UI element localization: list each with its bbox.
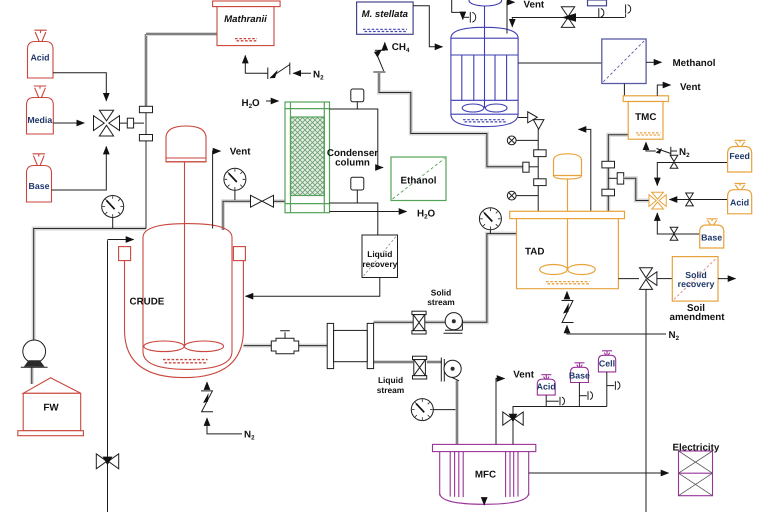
impeller CRUDE <box>144 341 224 352</box>
bottle Acid (MFC) <box>537 375 556 395</box>
wire: solid recovery out <box>718 278 736 280</box>
pipe: FW pump to feed header <box>34 229 146 341</box>
instrument check D at fermenter top <box>463 12 476 23</box>
valve: hourglass on Acid line <box>686 193 694 206</box>
bottle Acid (left) <box>28 30 54 78</box>
tank Mathranii seed vessel <box>213 1 281 46</box>
tank TAD <box>510 211 625 288</box>
wire: fermenter vent <box>507 2 515 33</box>
impeller fermenter <box>462 104 507 112</box>
pipe: TMC bottom to TAD downcomer <box>608 135 629 212</box>
fermenter vessel (blue) <box>451 27 518 126</box>
flange on riser upper <box>139 106 152 112</box>
svg-text:Media: Media <box>27 115 52 125</box>
bottle Feed <box>728 140 752 172</box>
svg-text:Ethanol: Ethanol <box>401 175 437 186</box>
svg-text:Cell: Cell <box>599 358 615 368</box>
wire: Acid to 4-way valve <box>53 73 106 101</box>
wire: Cell stem to header <box>606 372 608 407</box>
instrument check D on Cell stem <box>607 381 620 390</box>
wire: feed arrow into CRUDE dome <box>108 239 134 241</box>
instrument square upper <box>351 89 364 109</box>
gauge PI-2 on condenser feed <box>224 168 246 200</box>
instrument square lower <box>351 177 364 203</box>
wire: Acid bottle to orange valve <box>670 199 728 201</box>
funnel cone on TAD downcomer <box>533 120 544 130</box>
tank MFC <box>433 444 536 504</box>
shaft fermenter agitator <box>484 6 486 109</box>
wire: Media to 4-way valve <box>53 122 84 124</box>
valve: hourglass on Feed line <box>670 155 678 168</box>
gauge PI-4 on liquid stream drop <box>411 399 455 421</box>
shaft TAD agitator <box>567 179 569 268</box>
wire: condenser top to instrument tee and Ethanol <box>330 109 384 168</box>
wire: N2 supply to regulator <box>293 72 311 74</box>
valve: gate valve on CRUDE outlet <box>271 331 298 354</box>
svg-text:Methanol: Methanol <box>673 58 716 69</box>
pipe: top run into Mathranii <box>146 32 217 36</box>
wire: fermenter overheads to membrane <box>518 62 602 64</box>
svg-text:stream: stream <box>377 385 404 395</box>
wire: fermenter bottoms to TAD feed cone <box>518 117 527 119</box>
valve: orange 4-way at TAD feed station <box>649 192 666 209</box>
bottle Cell (MFC) <box>598 351 615 372</box>
sparger CRUDE <box>163 360 208 363</box>
wire: liquid recovery recycle into CRUDE <box>246 278 380 297</box>
pipe: filter to solid-stream valve <box>374 320 446 324</box>
regulator zigzag N2 into TMC bottom <box>646 142 677 155</box>
reducer on TAD feed line <box>523 162 529 172</box>
regulator zigzag N2 into TAD bottom <box>562 292 667 335</box>
wire: MFC power line to Electricity <box>529 472 669 474</box>
sparger fermenter <box>463 120 506 122</box>
svg-text:Base: Base <box>28 181 49 191</box>
regulator zigzag on Mathranii N2 line <box>268 63 290 80</box>
svg-text:Mathranii: Mathranii <box>224 14 267 25</box>
valve: hourglass on Base line <box>670 227 678 240</box>
wire: CRUDE vent <box>213 151 221 228</box>
valve: bowtie on condenser feed <box>251 195 274 207</box>
svg-text:Base: Base <box>701 233 722 243</box>
wire: Base to 4-way valve <box>52 147 107 191</box>
pipe: staircase into orange 4-way valve <box>624 178 649 200</box>
svg-text:Feed: Feed <box>729 151 750 161</box>
valve: 3-way on TAD solids outlet <box>618 268 672 290</box>
box Electricity <box>679 451 713 496</box>
box Ethanol <box>391 157 446 201</box>
reducer on staircase to orange valve <box>617 173 624 184</box>
flange on TMC downcomer lower <box>602 189 615 196</box>
svg-text:column: column <box>335 158 370 169</box>
wire: TAD downcomer <box>537 129 539 211</box>
impeller TAD <box>540 265 596 275</box>
svg-text:amendment: amendment <box>670 312 726 323</box>
svg-text:Vent: Vent <box>680 82 701 93</box>
wire: MFC vent <box>496 379 505 445</box>
wire: Base bottle to orange valve <box>657 213 699 234</box>
wire: 3-way valve drain down <box>645 289 647 512</box>
wire: methanol product out <box>646 61 661 63</box>
svg-text:Acid: Acid <box>730 198 749 208</box>
svg-text:stream: stream <box>427 297 454 307</box>
sparger TAD <box>546 282 590 284</box>
shaft CRUDE agitator <box>184 162 186 346</box>
svg-text:Liquid: Liquid <box>378 375 403 385</box>
svg-text:Liquid: Liquid <box>367 249 392 259</box>
svg-text:Acid: Acid <box>30 53 49 63</box>
svg-text:CRUDE: CRUDE <box>130 297 165 308</box>
svg-text:FW: FW <box>43 403 59 414</box>
flange on riser lower <box>139 135 152 141</box>
motor on TAD agitator <box>554 154 582 179</box>
gauge PI-1 on feed header <box>102 196 124 229</box>
motor on CRUDE agitator <box>166 126 206 162</box>
bottle Base (MFC) <box>569 363 590 383</box>
wire: MFC bottom drain <box>483 503 485 506</box>
pump: liquid stream blower <box>441 358 461 382</box>
wire: condenser lower side line to liquid recovery <box>330 203 378 235</box>
motor on fermenter <box>469 0 502 6</box>
svg-text:Base: Base <box>569 370 590 380</box>
instrument check D on Base stem <box>579 391 592 400</box>
wire: H2O into condenser top <box>266 100 279 102</box>
wire: TAD offgas up-left arrow <box>579 129 591 211</box>
valve: 4-way mixing valve (black) <box>94 110 120 136</box>
pipe: condenser feed from CRUDE dome <box>223 201 286 230</box>
wire: TMC vent <box>657 85 670 96</box>
instrument circle-X upper with stem <box>507 136 538 145</box>
wire: Acid stem to header <box>545 395 547 406</box>
svg-text:recovery: recovery <box>362 259 397 269</box>
tank CRUDE inner vessel <box>143 224 232 370</box>
flange on TMC downcomer upper <box>602 161 615 168</box>
instrument check D on membrane riser top <box>626 4 631 17</box>
svg-text:Acid: Acid <box>537 381 556 391</box>
instrument check D on Acid stem <box>546 397 564 406</box>
pipe: CRUDE jacket outlet to rotary filter <box>244 344 328 348</box>
pipe: solid stream riser to TAD <box>462 234 517 323</box>
box Liquid recovery <box>362 235 398 278</box>
bottle Media (left) <box>27 86 54 134</box>
valve: X-valve liquid stream <box>413 356 427 379</box>
valve: bowtie with down arrow on MFC feed <box>503 412 523 425</box>
instrument check D on recycle line <box>599 8 604 17</box>
membrane separator box <box>602 39 646 84</box>
nozzle triangle fermenter outlet <box>528 112 538 123</box>
bottle Base (left) <box>27 154 52 202</box>
tank FW <box>18 378 84 436</box>
regulator zigzag CH4 up to M. stellata <box>373 43 385 73</box>
wire: reducer to TAD downcomer <box>529 166 538 168</box>
box Solid recovery <box>672 257 718 302</box>
svg-text:Vent: Vent <box>524 0 545 11</box>
tank CRUDE jacket <box>119 247 246 378</box>
svg-text:TAD: TAD <box>525 247 544 258</box>
box M. stellata <box>357 2 414 34</box>
tank TMC <box>623 96 668 139</box>
instrument box (blue) top <box>588 0 607 6</box>
svg-text:TMC: TMC <box>635 112 656 123</box>
svg-text:recovery: recovery <box>678 279 715 289</box>
gauge PI-3 on solid stream riser <box>479 208 501 234</box>
instrument circle-X lower with stem <box>507 191 538 200</box>
wire: membrane to TMC <box>623 84 625 96</box>
valve: X-valve solid stream <box>412 311 426 334</box>
wire: N2 line up into Mathranii <box>245 56 268 74</box>
pipe: filter to liquid-stream valve <box>374 360 443 364</box>
wire: long drain line left <box>107 240 109 512</box>
bottle Acid (right) <box>728 184 752 214</box>
svg-text:Solid: Solid <box>431 287 451 297</box>
valve: bowtie with down arrow on drain line <box>96 454 118 469</box>
pipe: pump outlet down to FW tank <box>30 367 34 384</box>
pipe: liquid stream down to MFC <box>455 381 459 445</box>
pipe: vertical feed riser at x=146 <box>144 34 148 229</box>
wire: condenser bottoms H2O out <box>330 211 407 213</box>
wire: tee to media-valve staircase <box>608 177 617 179</box>
svg-text:MFC: MFC <box>475 470 496 481</box>
wire: M. stellata feed to fermenter <box>413 6 442 47</box>
svg-text:M. stellata: M. stellata <box>362 9 409 20</box>
svg-text:Electricity: Electricity <box>673 442 720 453</box>
svg-text:Vent: Vent <box>230 147 251 158</box>
flange on TAD downcomer upper <box>534 150 546 157</box>
svg-text:Vent: Vent <box>513 369 534 380</box>
wire: Feed bottle to orange valve <box>657 163 727 186</box>
wire: feed down into fermenter dome left <box>452 0 463 20</box>
wire: Base stem to header <box>578 383 580 407</box>
pump: solid stream blower <box>444 313 463 334</box>
pipe: staircase from CH4 regulator down to TAD feed cone line <box>379 73 523 167</box>
wire: valve outlet with coupling to riser <box>120 122 145 124</box>
bottle Base (right) <box>700 219 724 248</box>
valve: bowtie with left arrow on recycle <box>561 7 576 28</box>
regulator zigzag N2 into CRUDE bottom <box>201 382 242 434</box>
filter rotary drum <box>327 323 373 368</box>
wire: recycle return into fermenter dome <box>512 18 624 27</box>
pump: FW feed pump <box>21 340 48 367</box>
wire: dosing header into MFC <box>513 407 607 445</box>
column condenser <box>285 102 330 213</box>
flange on TAD downcomer lower <box>534 179 546 186</box>
